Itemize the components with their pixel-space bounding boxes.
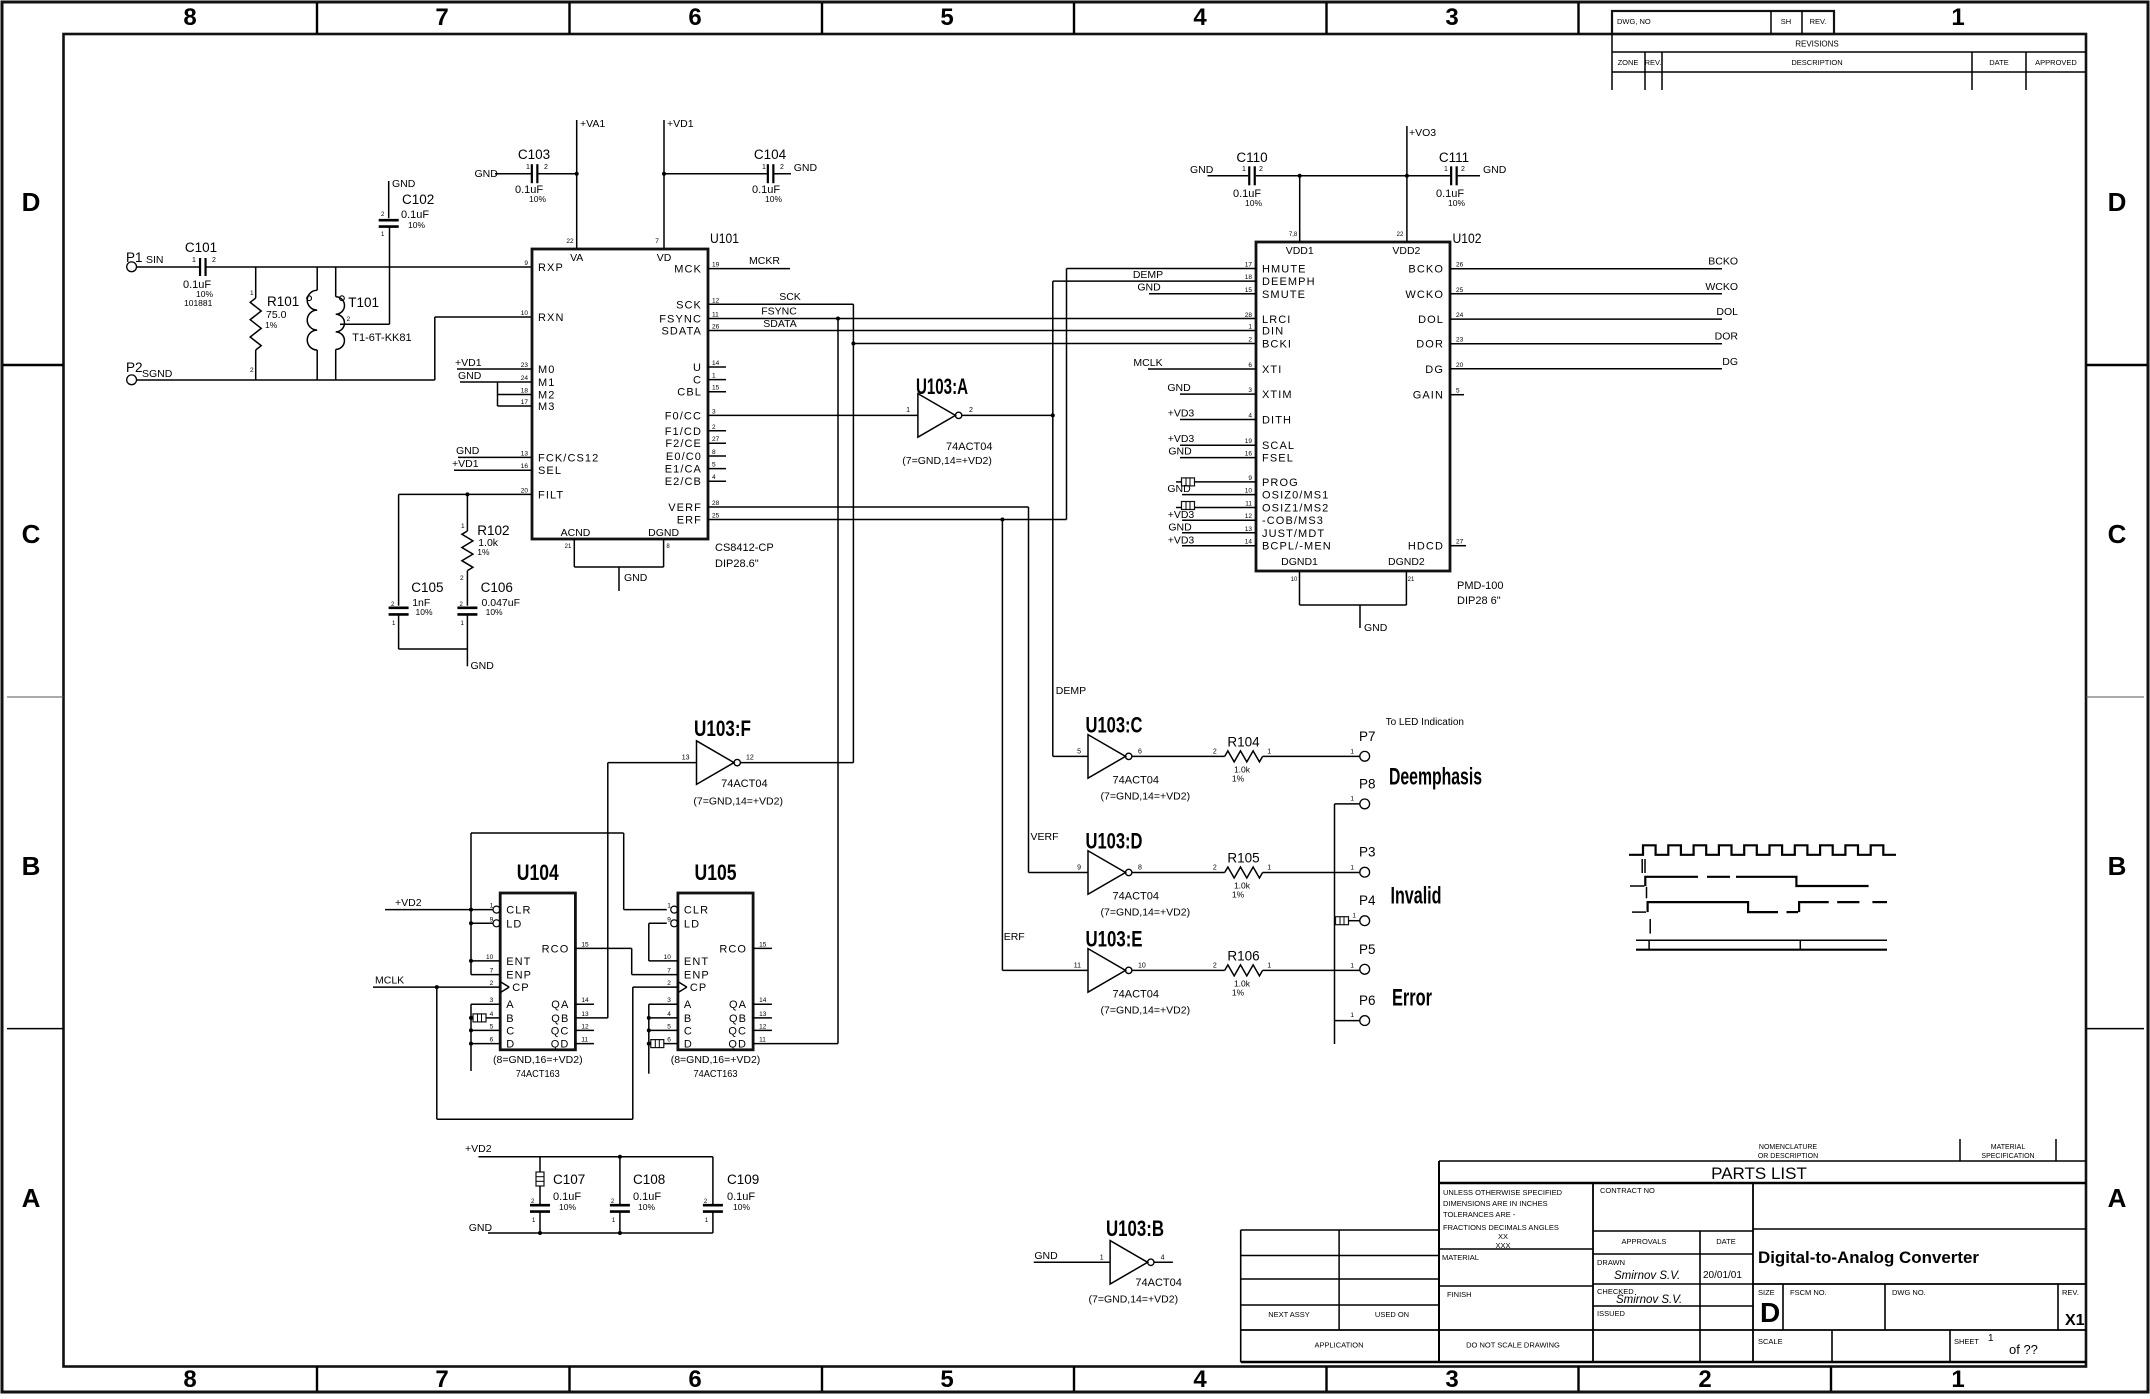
svg-text:SMUTE: SMUTE (1262, 289, 1306, 301)
svg-text:OSIZ0/MS1: OSIZ0/MS1 (1262, 490, 1329, 502)
svg-text:74ACT04: 74ACT04 (946, 441, 992, 453)
svg-text:XTIM: XTIM (1262, 389, 1293, 401)
svg-text:M0: M0 (538, 364, 555, 376)
svg-text:10%: 10% (1448, 198, 1465, 208)
svg-text:APPROVED: APPROVED (2035, 58, 2077, 67)
svg-text:C107: C107 (553, 1172, 585, 1187)
svg-text:14: 14 (581, 997, 589, 1004)
svg-text:A: A (22, 1183, 41, 1213)
svg-text:1: 1 (1350, 748, 1354, 755)
svg-text:16: 16 (521, 463, 529, 470)
svg-text:XX: XX (1498, 1232, 1508, 1241)
svg-text:QA: QA (551, 999, 569, 1011)
svg-text:2: 2 (250, 367, 254, 374)
svg-text:SH: SH (1781, 17, 1791, 26)
svg-text:(7=GND,14=+VD2): (7=GND,14=+VD2) (1089, 1294, 1179, 1306)
svg-text:GND: GND (1167, 483, 1191, 495)
svg-text:17: 17 (1245, 262, 1253, 269)
svg-text:DEMP: DEMP (1133, 269, 1163, 281)
svg-text:2: 2 (667, 980, 671, 987)
svg-text:1: 1 (1267, 865, 1271, 872)
svg-text:SDATA: SDATA (763, 318, 796, 330)
svg-text:11: 11 (1245, 501, 1252, 508)
svg-text:P8: P8 (1359, 777, 1376, 792)
svg-text:2: 2 (1248, 337, 1252, 344)
svg-text:DATE: DATE (1989, 58, 2008, 67)
svg-text:R104: R104 (1227, 734, 1260, 749)
svg-text:ENT: ENT (506, 956, 531, 968)
svg-text:U103:A: U103:A (916, 374, 968, 399)
svg-text:+VD1: +VD1 (452, 458, 479, 470)
svg-text:10: 10 (521, 310, 529, 317)
svg-text:(7=GND,14=+VD2): (7=GND,14=+VD2) (902, 455, 992, 467)
svg-text:Error: Error (1392, 985, 1432, 1012)
svg-text:DIP28.6": DIP28.6" (715, 558, 759, 570)
svg-text:5: 5 (1456, 388, 1460, 395)
svg-text:FSEL: FSEL (1262, 453, 1294, 465)
svg-text:27: 27 (1456, 539, 1464, 546)
svg-text:FSYNC: FSYNC (761, 306, 797, 318)
svg-text:QA: QA (729, 999, 747, 1011)
svg-text:U103:C: U103:C (1086, 712, 1143, 737)
svg-text:(8=GND,16=+VD2): (8=GND,16=+VD2) (671, 1054, 761, 1066)
svg-text:APPLICATION: APPLICATION (1314, 1341, 1363, 1350)
svg-text:10%: 10% (416, 607, 433, 617)
svg-text:APPROVALS: APPROVALS (1622, 1237, 1667, 1246)
svg-text:GND: GND (475, 168, 499, 180)
svg-text:26: 26 (1456, 262, 1464, 269)
svg-text:8: 8 (712, 449, 716, 456)
svg-text:+VO3: +VO3 (1409, 127, 1436, 139)
svg-text:28: 28 (1245, 312, 1253, 319)
svg-text:VA: VA (570, 252, 583, 264)
svg-text:VD: VD (657, 252, 672, 264)
svg-text:XTI: XTI (1262, 364, 1282, 376)
svg-text:DGND2: DGND2 (1388, 556, 1425, 568)
svg-text:2: 2 (1213, 748, 1217, 755)
svg-text:R106: R106 (1227, 948, 1259, 963)
svg-text:ZONE: ZONE (1618, 58, 1639, 67)
svg-text:U103:E: U103:E (1086, 926, 1143, 951)
svg-text:DGND: DGND (648, 527, 679, 539)
svg-text:D: D (506, 1039, 515, 1051)
svg-text:C109: C109 (727, 1172, 759, 1187)
svg-text:MCKR: MCKR (749, 255, 780, 267)
svg-text:C108: C108 (633, 1172, 665, 1187)
svg-text:CLR: CLR (684, 905, 709, 917)
svg-text:REVISIONS: REVISIONS (1795, 40, 1839, 49)
svg-text:DEMP: DEMP (1056, 685, 1086, 697)
svg-text:1: 1 (1350, 1012, 1354, 1019)
svg-text:U103:F: U103:F (694, 716, 751, 741)
svg-text:11: 11 (759, 1037, 766, 1044)
svg-text:F2/CE: F2/CE (665, 438, 702, 450)
svg-text:DWG, NO: DWG, NO (1617, 17, 1651, 26)
svg-text:1: 1 (250, 290, 254, 297)
svg-text:74ACT04: 74ACT04 (721, 778, 767, 790)
svg-text:REV.: REV. (2062, 1288, 2079, 1297)
svg-text:A: A (2108, 1183, 2127, 1213)
svg-text:2: 2 (1213, 962, 1217, 969)
svg-text:HMUTE: HMUTE (1262, 264, 1307, 276)
svg-text:OR DESCRIPTION: OR DESCRIPTION (1758, 1153, 1818, 1160)
svg-text:PARTS LIST: PARTS LIST (1711, 1164, 1807, 1183)
svg-text:GAIN: GAIN (1413, 390, 1444, 402)
svg-text:5: 5 (712, 462, 716, 469)
svg-text:3: 3 (1445, 1366, 1458, 1393)
svg-text:E2/CB: E2/CB (665, 476, 702, 488)
svg-text:8: 8 (1138, 865, 1142, 872)
svg-text:1: 1 (1267, 962, 1271, 969)
svg-text:MCLK: MCLK (1133, 357, 1162, 369)
svg-text:13: 13 (581, 1011, 589, 1018)
svg-text:UNLESS OTHERWISE SPECIFIED: UNLESS OTHERWISE SPECIFIED (1443, 1188, 1563, 1197)
svg-text:DESCRIPTION: DESCRIPTION (1791, 58, 1842, 67)
svg-text:FINISH: FINISH (1447, 1290, 1472, 1299)
svg-text:74ACT04: 74ACT04 (1113, 774, 1159, 786)
svg-text:M2: M2 (538, 390, 555, 402)
svg-text:SEL: SEL (538, 465, 562, 477)
svg-text:VDD1: VDD1 (1286, 245, 1314, 257)
svg-text:19: 19 (712, 262, 720, 269)
svg-text:5: 5 (940, 4, 953, 31)
svg-text:BCPL/-MEN: BCPL/-MEN (1262, 541, 1332, 553)
svg-text:D: D (22, 187, 41, 217)
svg-text:B: B (22, 851, 41, 881)
svg-text:27: 27 (712, 436, 720, 443)
svg-text:C101: C101 (185, 240, 217, 255)
svg-text:ERF: ERF (677, 515, 702, 527)
svg-text:+VD3: +VD3 (1168, 535, 1195, 547)
svg-text:Smirnov S.V.: Smirnov S.V. (1616, 1294, 1682, 1306)
svg-text:DOR: DOR (1715, 331, 1739, 343)
svg-text:JUST/MDT: JUST/MDT (1262, 528, 1325, 540)
svg-text:3: 3 (1248, 387, 1252, 394)
svg-text:Smirnov S.V.: Smirnov S.V. (1614, 1270, 1680, 1282)
svg-text:9: 9 (1248, 475, 1252, 482)
svg-text:15: 15 (1245, 287, 1253, 294)
svg-text:+VD1: +VD1 (667, 118, 694, 130)
svg-text:14: 14 (759, 997, 767, 1004)
svg-text:74ACT04: 74ACT04 (1113, 988, 1159, 1000)
svg-text:P7: P7 (1359, 729, 1376, 744)
svg-text:6: 6 (688, 1366, 701, 1393)
svg-text:SCK: SCK (779, 291, 801, 303)
svg-text:28: 28 (712, 500, 720, 507)
svg-text:MATERIAL: MATERIAL (1442, 1253, 1479, 1262)
svg-text:4: 4 (1161, 1254, 1165, 1261)
svg-text:22: 22 (1397, 232, 1404, 238)
svg-text:10: 10 (1291, 577, 1298, 583)
svg-text:74ACT04: 74ACT04 (1113, 891, 1159, 903)
svg-text:U103:D: U103:D (1086, 829, 1143, 854)
svg-text:GND: GND (1364, 622, 1388, 634)
svg-text:T1-6T-KK81: T1-6T-KK81 (352, 332, 411, 344)
svg-text:B: B (2108, 851, 2127, 881)
svg-text:10%: 10% (765, 194, 782, 204)
svg-text:2: 2 (490, 980, 494, 987)
svg-text:18: 18 (1245, 274, 1253, 281)
svg-text:1%: 1% (1232, 773, 1245, 783)
svg-text:2: 2 (347, 316, 351, 323)
svg-text:REV.: REV. (1810, 17, 1827, 26)
svg-text:DG: DG (1425, 364, 1444, 376)
svg-text:CP: CP (690, 982, 707, 994)
svg-text:1: 1 (1951, 4, 1964, 31)
svg-text:7: 7 (490, 968, 494, 975)
svg-text:NEXT ASSY: NEXT ASSY (1268, 1310, 1310, 1319)
svg-text:C102: C102 (402, 192, 434, 207)
svg-text:10%: 10% (1245, 198, 1262, 208)
svg-text:GND: GND (1167, 382, 1191, 394)
svg-text:12: 12 (759, 1023, 767, 1030)
svg-text:GND: GND (794, 162, 818, 174)
svg-text:P3: P3 (1359, 845, 1376, 860)
svg-text:GND: GND (1034, 1250, 1058, 1262)
svg-text:DIP28 6": DIP28 6" (1457, 595, 1501, 607)
svg-text:GND: GND (392, 178, 416, 190)
svg-text:4: 4 (712, 474, 716, 481)
svg-text:(7=GND,14=+VD2): (7=GND,14=+VD2) (1101, 907, 1191, 919)
svg-text:+VD2: +VD2 (465, 1143, 492, 1155)
svg-text:ISSUED: ISSUED (1597, 1309, 1626, 1318)
svg-text:23: 23 (1456, 337, 1464, 344)
svg-text:GND: GND (458, 370, 482, 382)
svg-text:F0/CC: F0/CC (665, 410, 702, 422)
svg-text:PMD-100: PMD-100 (1457, 580, 1503, 592)
svg-text:RCO: RCO (719, 943, 747, 955)
svg-text:1: 1 (461, 523, 465, 530)
svg-text:C105: C105 (411, 580, 443, 595)
svg-text:5: 5 (490, 1023, 494, 1030)
svg-text:14: 14 (1245, 539, 1253, 546)
svg-text:+VD1: +VD1 (455, 357, 482, 369)
svg-text:C103: C103 (518, 147, 550, 162)
svg-text:C: C (693, 375, 702, 387)
svg-text:DGND1: DGND1 (1281, 556, 1318, 568)
svg-text:P5: P5 (1359, 942, 1376, 957)
svg-text:15: 15 (759, 941, 767, 948)
svg-text:C106: C106 (481, 580, 513, 595)
svg-text:1: 1 (192, 257, 196, 264)
svg-text:FCK/CS12: FCK/CS12 (538, 452, 599, 464)
svg-text:4: 4 (1193, 4, 1207, 31)
svg-text:3: 3 (667, 997, 671, 1004)
svg-text:FILT: FILT (538, 489, 564, 501)
svg-text:14: 14 (712, 360, 720, 367)
svg-text:GND: GND (456, 445, 480, 457)
svg-text:6: 6 (1138, 748, 1142, 755)
svg-text:2: 2 (780, 164, 784, 171)
svg-text:3: 3 (712, 408, 716, 415)
svg-text:LRCI: LRCI (1262, 314, 1291, 326)
svg-text:Invalid: Invalid (1391, 883, 1442, 910)
svg-text:74ACT163: 74ACT163 (694, 1068, 738, 1080)
svg-text:Deemphasis: Deemphasis (1389, 764, 1482, 791)
svg-text:E1/CA: E1/CA (665, 464, 702, 476)
svg-text:6: 6 (490, 1037, 494, 1044)
svg-text:(7=GND,14=+VD2): (7=GND,14=+VD2) (1101, 790, 1191, 802)
svg-text:MATERIAL: MATERIAL (1991, 1144, 2026, 1151)
svg-text:SDATA: SDATA (661, 326, 702, 338)
svg-text:SGND: SGND (142, 368, 173, 380)
svg-text:U: U (693, 362, 702, 374)
svg-text:DOL: DOL (1716, 306, 1738, 318)
svg-text:12: 12 (1245, 513, 1253, 520)
svg-text:1: 1 (1248, 324, 1252, 331)
svg-text:6: 6 (667, 1037, 671, 1044)
svg-text:QC: QC (551, 1025, 570, 1037)
svg-text:SIZE: SIZE (1758, 1288, 1775, 1297)
svg-text:10: 10 (486, 954, 494, 961)
svg-text:E0/C0: E0/C0 (666, 451, 702, 463)
svg-text:HDCD: HDCD (1408, 541, 1444, 553)
svg-text:FRACTIONS DECIMALS ANGLES: FRACTIONS DECIMALS ANGLES (1443, 1223, 1559, 1232)
svg-text:1: 1 (1100, 1254, 1104, 1261)
svg-text:REV.: REV. (1645, 58, 1662, 67)
svg-text:4: 4 (490, 1011, 494, 1018)
svg-text:C111: C111 (1439, 150, 1469, 165)
svg-text:1: 1 (1350, 796, 1354, 803)
svg-text:(7=GND,14=+VD2): (7=GND,14=+VD2) (693, 796, 783, 808)
svg-text:21: 21 (565, 544, 572, 550)
svg-text:GND: GND (1168, 446, 1192, 458)
svg-text:OSIZ1/MS2: OSIZ1/MS2 (1262, 503, 1329, 515)
svg-text:DRAWN: DRAWN (1597, 1258, 1625, 1267)
svg-text:DIN: DIN (1262, 326, 1284, 338)
svg-text:QD: QD (728, 1039, 747, 1051)
svg-text:FSCM NO.: FSCM NO. (1790, 1288, 1827, 1297)
svg-text:26: 26 (712, 324, 720, 331)
svg-text:DITH: DITH (1262, 415, 1292, 427)
svg-text:MCLK: MCLK (375, 975, 404, 987)
svg-text:2: 2 (1698, 1366, 1711, 1393)
svg-text:BCKI: BCKI (1262, 339, 1292, 351)
svg-text:12: 12 (746, 755, 754, 762)
svg-text:A: A (506, 999, 514, 1011)
svg-text:GND: GND (1483, 164, 1507, 176)
svg-text:1: 1 (1444, 166, 1448, 173)
svg-text:GND: GND (469, 1222, 493, 1234)
svg-text:24: 24 (1456, 312, 1464, 319)
svg-text:C104: C104 (754, 147, 787, 162)
svg-text:5: 5 (940, 1366, 953, 1393)
svg-text:(7=GND,14=+VD2): (7=GND,14=+VD2) (1101, 1004, 1191, 1016)
svg-text:VERF: VERF (668, 502, 702, 514)
svg-text:C: C (506, 1025, 515, 1037)
svg-text:LD: LD (506, 918, 522, 930)
svg-text:QB: QB (551, 1013, 569, 1025)
svg-text:13: 13 (682, 755, 690, 762)
svg-text:DWG NO.: DWG NO. (1892, 1288, 1926, 1297)
svg-text:4: 4 (1248, 413, 1252, 420)
svg-text:8: 8 (183, 4, 196, 31)
svg-text:2: 2 (212, 257, 216, 264)
svg-text:74ACT163: 74ACT163 (516, 1068, 560, 1080)
svg-text:GND: GND (471, 660, 495, 672)
svg-text:9: 9 (1077, 865, 1081, 872)
svg-text:SHEET: SHEET (1954, 1337, 1979, 1346)
svg-text:SCALE: SCALE (1758, 1337, 1783, 1346)
svg-text:GND: GND (1168, 522, 1192, 534)
svg-text:CP: CP (512, 982, 529, 994)
svg-text:5: 5 (667, 1023, 671, 1030)
svg-text:23: 23 (521, 362, 529, 369)
svg-text:7: 7 (667, 968, 671, 975)
svg-text:VERF: VERF (1031, 831, 1059, 843)
svg-text:+VD3: +VD3 (1168, 408, 1195, 420)
svg-text:20: 20 (521, 487, 529, 494)
svg-text:7: 7 (655, 238, 659, 245)
svg-text:7: 7 (435, 4, 448, 31)
svg-text:11: 11 (712, 312, 719, 319)
svg-text:7,8: 7,8 (1289, 232, 1298, 238)
svg-text:GND: GND (1190, 164, 1214, 176)
svg-text:2: 2 (544, 164, 548, 171)
svg-text:B: B (506, 1013, 514, 1025)
svg-text:RCO: RCO (542, 943, 570, 955)
svg-text:2: 2 (1259, 166, 1263, 173)
svg-text:D: D (2108, 187, 2127, 217)
svg-text:8: 8 (183, 1366, 196, 1393)
svg-text:GND: GND (1137, 282, 1161, 294)
svg-text:R102: R102 (477, 523, 509, 538)
svg-text:+VD3: +VD3 (1168, 509, 1195, 521)
svg-text:22: 22 (566, 238, 574, 245)
svg-text:21: 21 (1408, 577, 1415, 583)
svg-text:C110: C110 (1236, 150, 1267, 165)
svg-text:74ACT04: 74ACT04 (1135, 1277, 1181, 1289)
svg-text:CS8412-CP: CS8412-CP (715, 542, 774, 554)
svg-text:1: 1 (1352, 913, 1356, 920)
svg-text:R105: R105 (1227, 851, 1259, 866)
svg-text:1%: 1% (265, 320, 278, 330)
svg-text:6: 6 (1248, 362, 1252, 369)
svg-text:ACND: ACND (561, 527, 591, 539)
svg-text:2: 2 (712, 424, 716, 431)
svg-text:10: 10 (664, 954, 672, 961)
svg-text:13: 13 (521, 450, 529, 457)
svg-text:DEEMPH: DEEMPH (1262, 276, 1316, 288)
svg-text:U103:B: U103:B (1106, 1216, 1164, 1241)
svg-text:A: A (684, 999, 692, 1011)
svg-text:24: 24 (521, 375, 529, 382)
svg-text:10: 10 (1245, 488, 1253, 495)
svg-text:WCKO: WCKO (1405, 289, 1444, 301)
svg-text:-COB/MS3: -COB/MS3 (1262, 515, 1324, 527)
svg-text:2: 2 (1461, 166, 1465, 173)
svg-text:LD: LD (684, 918, 700, 930)
svg-text:19: 19 (1245, 438, 1253, 445)
svg-text:1: 1 (906, 407, 910, 414)
svg-text:U101: U101 (710, 231, 739, 246)
svg-text:D: D (684, 1039, 693, 1051)
svg-text:5: 5 (1077, 748, 1081, 755)
svg-text:DATE: DATE (1716, 1237, 1735, 1246)
svg-text:SIN: SIN (146, 254, 164, 266)
svg-text:1: 1 (1267, 748, 1271, 755)
svg-text:DG: DG (1722, 356, 1738, 368)
svg-text:U102: U102 (1453, 231, 1482, 246)
svg-text:1%: 1% (477, 547, 490, 557)
svg-text:12: 12 (712, 297, 720, 304)
svg-text:DIMENSIONS ARE IN INCHES: DIMENSIONS ARE IN INCHES (1443, 1199, 1548, 1208)
svg-text:1: 1 (1951, 1366, 1964, 1393)
svg-text:QC: QC (728, 1025, 747, 1037)
svg-text:FSYNC: FSYNC (659, 314, 702, 326)
svg-text:C: C (22, 519, 41, 549)
svg-text:CBL: CBL (677, 387, 702, 399)
